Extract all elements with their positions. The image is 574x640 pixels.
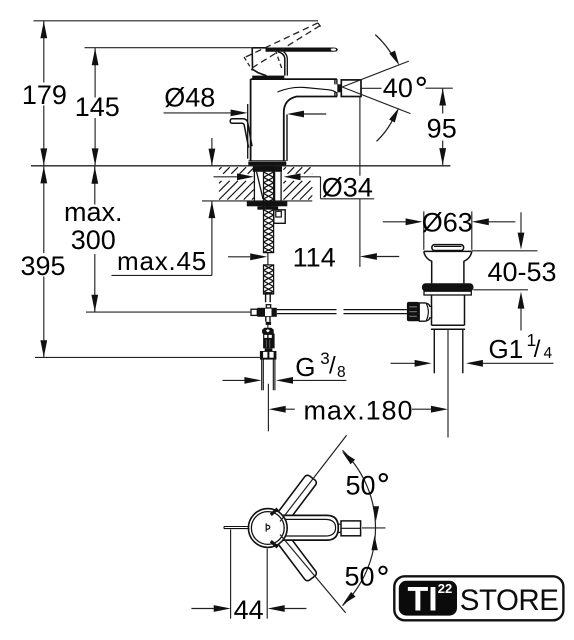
hose nut (ribbed) [262, 328, 274, 334]
dimension arrows [40, 21, 47, 38]
svg-text:max.180: max.180 [304, 395, 414, 425]
cartridge mark [266, 523, 270, 531]
pop-up lever [230, 119, 252, 148]
threaded shank [264, 167, 274, 253]
svg-text:4: 4 [544, 345, 553, 362]
svg-text:50: 50 [345, 471, 375, 501]
svg-text:395: 395 [20, 251, 65, 281]
svg-text:179: 179 [22, 80, 67, 110]
TI STORE logo [394, 576, 563, 620]
aerator [337, 84, 341, 92]
svg-text:/: / [329, 353, 336, 380]
knob link [419, 303, 431, 321]
O-ring [422, 283, 474, 291]
base plate [249, 160, 287, 162]
stem to hose nut [266, 317, 270, 322]
svg-text:44: 44 [234, 595, 264, 625]
escutcheon [252, 76, 284, 80]
top view spout [272, 515, 338, 540]
deck hatching [219, 167, 254, 174]
svg-text:300: 300 [71, 225, 116, 255]
svg-text:40-53: 40-53 [488, 257, 557, 287]
svg-text:G: G [295, 352, 315, 382]
50deg arc [343, 450, 376, 605]
cross fitting [251, 309, 257, 315]
svg-text:STORE: STORE [460, 584, 559, 617]
svg-text:Ø63: Ø63 [422, 208, 473, 238]
svg-text:50: 50 [344, 562, 374, 592]
junction nubs [271, 509, 278, 547]
spray cone rays [342, 61, 410, 114]
svg-text:145: 145 [75, 92, 120, 122]
handle [252, 48, 338, 76]
svg-text:95: 95 [427, 113, 457, 143]
svg-text:/: / [534, 336, 541, 363]
drain cap [432, 245, 464, 251]
svg-text:max.45: max.45 [117, 246, 207, 276]
washer [247, 202, 287, 207]
drain flange [424, 251, 472, 283]
svg-text:Ø48: Ø48 [164, 83, 215, 113]
svg-text:22: 22 [438, 581, 452, 596]
svg-text:8: 8 [337, 364, 346, 381]
drain body [424, 291, 471, 295]
handle alternate position (dashed) [244, 23, 321, 71]
svg-text:G1: G1 [489, 334, 524, 364]
svg-text:40: 40 [383, 73, 413, 103]
top view aerator [338, 524, 341, 532]
tailpipe [434, 329, 463, 373]
stem below shank [266, 294, 271, 302]
rod guide [274, 210, 285, 224]
top view pop-up rod [224, 527, 249, 529]
hoses [262, 359, 275, 390]
svg-text:max.: max. [64, 197, 123, 227]
horizontal pull rod [277, 310, 407, 314]
top view body circle [248, 509, 287, 548]
svg-text:Ø34: Ø34 [322, 173, 373, 203]
mounting hardware [253, 166, 282, 171]
drain knob [407, 302, 419, 321]
faucet body [248, 79, 338, 161]
top view handles [277, 474, 318, 582]
svg-text:TI: TI [408, 581, 438, 619]
50deg rays [280, 435, 347, 613]
svg-text:114: 114 [293, 242, 336, 272]
